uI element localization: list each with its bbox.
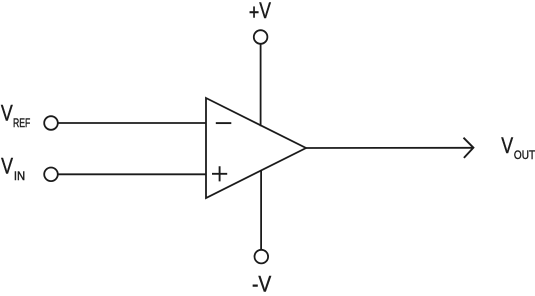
svg-text:+V: +V: [249, 0, 272, 25]
svg-text:V: V: [1, 154, 13, 179]
wire VREF input: [58, 122, 206, 124]
svg-text:V: V: [501, 133, 513, 158]
terminal circle -V: [254, 250, 268, 264]
inverting input minus symbol: [216, 122, 232, 124]
svg-text:V: V: [1, 100, 13, 125]
terminal circle +V: [254, 30, 268, 44]
svg-text:OUT: OUT: [514, 148, 535, 162]
svg-text:IN: IN: [14, 169, 25, 183]
wire -V supply: [260, 170, 262, 249]
svg-text:-V: -V: [252, 272, 272, 296]
svg-text:REF: REF: [13, 116, 30, 130]
op-amp U1 (comparator triangle): [206, 98, 306, 198]
wire output: [306, 147, 473, 149]
terminal circle VREF: [44, 116, 58, 130]
wire +V supply: [260, 44, 262, 126]
non-inverting input plus symbol: [212, 166, 227, 181]
terminal circle VIN: [44, 168, 58, 182]
arrowhead output: [464, 138, 474, 158]
wire VIN input: [58, 173, 206, 175]
